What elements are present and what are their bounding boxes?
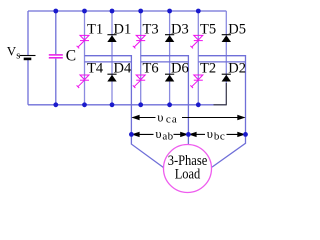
wire phase a mid and drop (85, 56, 164, 168)
node dot bottom D4 (110, 102, 115, 107)
capacitor C (49, 55, 63, 58)
node dot bottom D6 (167, 102, 172, 107)
svg-text:Vs: Vs (7, 44, 20, 62)
node dot top capacitor (53, 9, 58, 14)
thyristor T2 (190, 75, 202, 88)
svg-text:T2: T2 (200, 61, 216, 77)
node dot bottom capacitor (53, 102, 58, 107)
svg-text:υbc: υbc (207, 127, 225, 142)
wire leg3 diode line (225, 11, 227, 105)
wire leg1 diode line (111, 11, 113, 105)
diode D4 (107, 74, 116, 81)
wire leg2 thyristor line (140, 11, 142, 105)
diode D3 (165, 35, 174, 42)
wire phase b mid and drop (141, 56, 189, 145)
wire phase c lower bus (198, 61, 245, 63)
load circle (164, 145, 212, 193)
svg-text:υab: υab (155, 127, 173, 142)
node dot phase b tap (186, 132, 191, 137)
svg-text:D1: D1 (114, 21, 132, 37)
svg-text:T3: T3 (143, 21, 159, 37)
node dot top T5 (196, 9, 201, 14)
node dot top T3 (138, 9, 143, 14)
node dot bottom T4 (82, 102, 87, 107)
node dot top T1 (82, 9, 87, 14)
diode D6 (165, 74, 174, 81)
wire leg2 diode line (169, 11, 171, 105)
thyristor T3 (133, 35, 145, 48)
wire leg1 thyristor line (84, 11, 86, 105)
measurement arrow vca (131, 115, 245, 120)
wire bottom rail (28, 104, 226, 106)
svg-text:C: C (66, 48, 76, 65)
wire leg3 thyristor line (197, 11, 199, 105)
wire left edge (source branch) (27, 11, 29, 105)
node dot bottom T2 (196, 102, 201, 107)
node dot top D1 (110, 9, 115, 14)
node dot top D3 (167, 9, 172, 14)
svg-text:Load: Load (175, 167, 201, 183)
thyristor T1 (77, 35, 89, 48)
svg-text:T5: T5 (200, 21, 216, 37)
svg-text:T4: T4 (87, 61, 104, 77)
label 3-Phase Load (168, 153, 208, 182)
svg-text:D6: D6 (171, 61, 189, 77)
svg-text:υca: υca (157, 110, 177, 125)
wire phase a lower bus (85, 61, 132, 63)
node dot bottom T6 (138, 102, 143, 107)
svg-text:T6: T6 (143, 61, 159, 77)
diode D2 (222, 74, 231, 81)
measurement arrow vbc (188, 132, 245, 137)
thyristor T5 (190, 35, 202, 48)
diode D1 (107, 35, 116, 42)
wire D2 black lead and corner (214, 83, 227, 105)
thyristor T6 (133, 75, 145, 88)
svg-text:D2: D2 (228, 61, 246, 77)
node dot phase a tap (129, 132, 134, 137)
wire phase b lower bus (141, 61, 189, 63)
svg-text:D5: D5 (228, 21, 246, 37)
thyristor T4 (77, 75, 89, 88)
svg-text:D4: D4 (114, 61, 132, 77)
wire phase c mid and drop (198, 56, 245, 167)
node dot phase c tap (243, 132, 248, 137)
voltage source Vs battery (20, 56, 36, 59)
wire capacitor branch (55, 11, 57, 105)
wire top rail (28, 10, 226, 12)
measurement arrow vab (131, 132, 188, 137)
diode D5 (222, 35, 231, 42)
svg-text:D3: D3 (171, 21, 189, 37)
svg-text:T1: T1 (87, 21, 103, 37)
